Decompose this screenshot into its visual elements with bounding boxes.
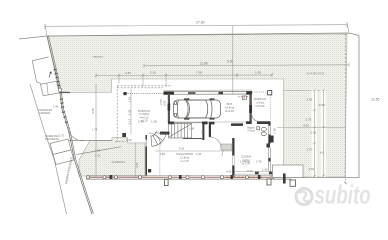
entry stub wall bbox=[160, 132, 170, 135]
svg-text:0.30: 0.30 bbox=[247, 169, 253, 173]
svg-text:2.50: 2.50 bbox=[159, 99, 163, 105]
svg-text:27.60: 27.60 bbox=[196, 21, 205, 25]
svg-text:PEDONALE: PEDONALE bbox=[45, 137, 59, 141]
svg-text:SOGGIORNO: SOGGIORNO bbox=[176, 152, 193, 156]
bottom boundary right bbox=[291, 177, 360, 179]
right boundary bbox=[358, 36, 360, 178]
svg-text:0.30: 0.30 bbox=[163, 100, 167, 106]
dim under car bbox=[169, 121, 250, 123]
dimension 27.60 top bbox=[45, 22, 349, 36]
bagno fixtures bbox=[257, 127, 267, 136]
svg-text:GIARDINO: GIARDINO bbox=[93, 55, 104, 58]
svg-text:2.70: 2.70 bbox=[307, 147, 313, 151]
right vertical dim chains bbox=[284, 90, 328, 92]
neighbor buildings bottom-left bbox=[50, 139, 71, 155]
svg-text:1.28: 1.28 bbox=[151, 120, 157, 124]
red dash under top wall bbox=[238, 96, 250, 98]
garden hatched area top+right bbox=[47, 34, 347, 177]
svg-text:3.35: 3.35 bbox=[127, 109, 131, 115]
interior line bbox=[159, 139, 161, 175]
garage east wall bbox=[249, 94, 251, 125]
soggiorno east wall bbox=[209, 122, 211, 137]
svg-text:2.17: 2.17 bbox=[127, 118, 131, 124]
svg-text:4.41: 4.41 bbox=[135, 162, 139, 168]
east wing wall right of kitchen bbox=[283, 174, 286, 184]
garage top wall bbox=[164, 90, 253, 95]
svg-text:1.44mq: 1.44mq bbox=[240, 160, 250, 164]
garage west wall bbox=[168, 94, 170, 124]
top boundary fence bbox=[19, 33, 359, 39]
svg-text:1.40: 1.40 bbox=[53, 104, 59, 108]
svg-text:5.38: 5.38 bbox=[227, 59, 233, 63]
garden hatched wedge bottom-left bbox=[79, 138, 145, 176]
svg-text:5.41: 5.41 bbox=[179, 147, 185, 151]
svg-text:12.50: 12.50 bbox=[371, 98, 380, 102]
svg-text:+0.10: +0.10 bbox=[141, 119, 148, 123]
red dashes bbox=[226, 176, 262, 178]
svg-text:2.40: 2.40 bbox=[189, 127, 195, 131]
svg-text:4.41: 4.41 bbox=[226, 169, 232, 173]
bagno east wall bbox=[268, 121, 270, 125]
svg-text:4.0: 4.0 bbox=[320, 150, 325, 154]
svg-text:11.86: 11.86 bbox=[200, 61, 208, 65]
road left edge bbox=[30, 84, 67, 214]
kitchen west wall bbox=[232, 138, 234, 177]
extension line 5.38 bbox=[232, 26, 234, 94]
svg-text:1.53: 1.53 bbox=[127, 96, 131, 102]
neighbor building quad bbox=[41, 81, 60, 96]
gate arc bbox=[68, 127, 84, 141]
svg-text:subito: subito bbox=[315, 179, 371, 209]
svg-text:PORTICO: PORTICO bbox=[254, 97, 266, 101]
stubs below wall bbox=[165, 179, 169, 185]
svg-text:CUCINA: CUCINA bbox=[241, 155, 252, 159]
svg-text:12.8mq: 12.8mq bbox=[180, 156, 189, 160]
svg-text:2.75: 2.75 bbox=[306, 117, 312, 121]
texts SOGGIORNO bbox=[176, 152, 193, 163]
stair west wall bbox=[145, 135, 147, 140]
node gate circle bbox=[58, 88, 62, 92]
carport vertical dim bbox=[130, 89, 132, 134]
dim arrow slashes row2 bbox=[95, 74, 273, 77]
door arc portico-bagno bbox=[252, 115, 259, 122]
stair dark block bbox=[148, 169, 151, 172]
svg-text:2.40: 2.40 bbox=[196, 152, 202, 156]
kitchen door arc bbox=[222, 145, 233, 156]
svg-text:7.30: 7.30 bbox=[196, 71, 202, 75]
wedge boundary diagonal bbox=[76, 147, 121, 155]
svg-text:1.95: 1.95 bbox=[255, 70, 261, 74]
svg-text:2.80: 2.80 bbox=[319, 103, 325, 107]
carport front edge line bbox=[123, 93, 168, 95]
internal stair bbox=[169, 124, 192, 139]
texts BOX bbox=[225, 102, 234, 113]
neighbor parcel top-left bbox=[32, 57, 48, 84]
kitchen counter bbox=[221, 144, 232, 150]
terrace edge line bbox=[69, 139, 112, 141]
svg-text:a 9mq: a 9mq bbox=[256, 100, 264, 104]
middle wall band right bbox=[231, 123, 243, 126]
dim 4.60 horizontal bbox=[277, 127, 345, 129]
portico dotted edge bbox=[252, 91, 268, 93]
fence tick hatching bbox=[54, 69, 68, 122]
svg-text:1.06: 1.06 bbox=[311, 130, 317, 134]
svg-text:3.4mq: 3.4mq bbox=[247, 129, 255, 133]
texts PORTICO a 9mq bbox=[254, 97, 266, 108]
left vertical dim line bbox=[95, 84, 97, 177]
svg-text:GIARDINO: GIARDINO bbox=[112, 161, 126, 164]
gate marker arrow bbox=[49, 72, 52, 78]
svg-text:H=2.40: H=2.40 bbox=[225, 109, 234, 113]
carport pillar 2 bbox=[122, 133, 126, 137]
texts PORTICO TETTOIA bbox=[138, 109, 150, 123]
svg-text:2.76: 2.76 bbox=[256, 159, 262, 163]
external curved stair bbox=[151, 131, 167, 146]
window sills on band bbox=[110, 175, 261, 179]
dimension row1 bbox=[144, 63, 349, 68]
svg-text:2.10: 2.10 bbox=[150, 71, 156, 75]
wall below stair bbox=[183, 138, 202, 140]
middle wall band left bbox=[168, 122, 174, 125]
chimney right bbox=[270, 136, 273, 143]
carport dashed outline bbox=[115, 86, 172, 142]
left boundary fence double line bbox=[47, 36, 92, 214]
texts CUCINA bbox=[241, 155, 252, 166]
P box bbox=[243, 96, 247, 100]
svg-text:1.40: 1.40 bbox=[262, 167, 268, 171]
svg-text:1.41: 1.41 bbox=[95, 154, 101, 158]
svg-text:3.40: 3.40 bbox=[91, 108, 95, 114]
svg-text:16.6mq: 16.6mq bbox=[225, 105, 234, 109]
svg-text:2.87: 2.87 bbox=[125, 71, 131, 75]
portico pillar bbox=[268, 91, 272, 95]
svg-text:2.0: 2.0 bbox=[201, 130, 205, 134]
columns bbox=[86, 176, 274, 179]
watermark bbox=[296, 179, 371, 209]
patio right bbox=[273, 165, 304, 178]
svg-text:GIARDINO: GIARDINO bbox=[307, 71, 326, 75]
carport pillar bbox=[124, 92, 127, 95]
door arc soggiorno bbox=[210, 137, 221, 148]
svg-text:H=2.90: H=2.90 bbox=[256, 104, 265, 108]
svg-text:m 2.70: m 2.70 bbox=[180, 159, 189, 163]
svg-text:BOX: BOX bbox=[227, 102, 233, 106]
bottom wall band bbox=[86, 175, 291, 177]
svg-text:1.52: 1.52 bbox=[309, 167, 315, 171]
dimension row2 bbox=[96, 73, 272, 87]
svg-text:1.50: 1.50 bbox=[95, 149, 101, 153]
entry door arc bbox=[149, 133, 161, 145]
svg-text:3.58: 3.58 bbox=[160, 152, 166, 156]
dashed garden fence right bbox=[345, 34, 347, 183]
svg-text:2.20: 2.20 bbox=[126, 138, 132, 142]
svg-text:0.90: 0.90 bbox=[272, 128, 276, 134]
svg-text:1.78: 1.78 bbox=[92, 128, 98, 132]
svg-text:1.70: 1.70 bbox=[59, 134, 65, 138]
car bbox=[174, 98, 221, 119]
kitchen south wall bbox=[235, 171, 273, 173]
wedge vertical dim bbox=[134, 143, 136, 178]
pillar right lower bbox=[267, 144, 271, 148]
svg-text:2.05: 2.05 bbox=[307, 98, 313, 102]
svg-text:CARRAIO: CARRAIO bbox=[39, 111, 51, 115]
wall segment near gate bbox=[59, 91, 70, 93]
svg-text:4.60: 4.60 bbox=[303, 123, 309, 127]
